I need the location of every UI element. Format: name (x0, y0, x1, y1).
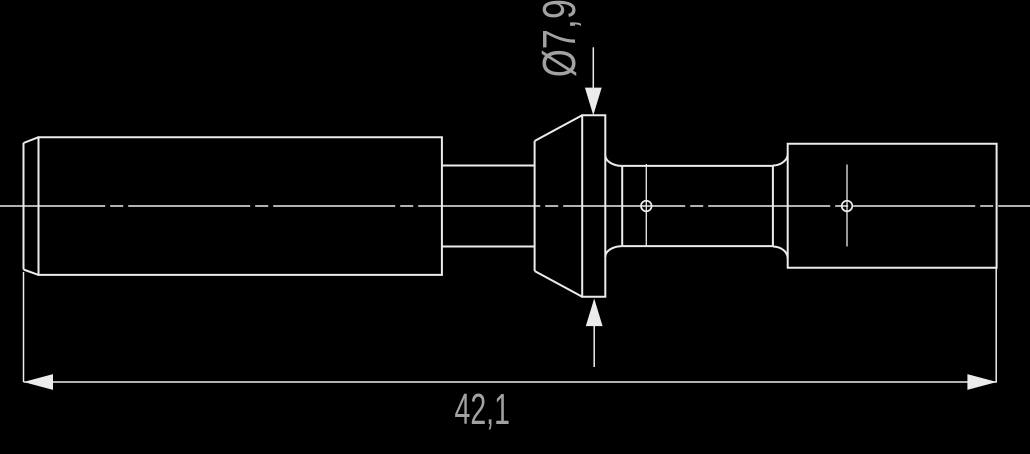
cone slant top (535, 115, 583, 141)
center mark 1 circle (641, 201, 652, 212)
neck top line (442, 165, 535, 167)
bottom leader shaft (593, 324, 595, 367)
svg-text:42,1: 42,1 (455, 384, 510, 434)
chamfer top (24, 137, 39, 143)
center mark 2 vertical (846, 165, 848, 247)
svg-text:Ø7,9: Ø7,9 (534, 0, 585, 77)
center mark 2 circle (842, 201, 853, 212)
right arrowhead (967, 374, 997, 390)
neck bottom line (442, 246, 535, 248)
top dimension leader shaft (592, 47, 594, 90)
fillet top right of flange (605, 155, 622, 166)
centerline (0, 205, 1030, 207)
big cylinder body (39, 137, 442, 275)
flange (582, 115, 605, 297)
fillet bottom right of flange (605, 246, 622, 257)
dimension line 42,1 (24, 381, 997, 383)
mid cylinder bottom line (622, 245, 773, 247)
cone left face (534, 141, 536, 271)
step fillet bottom to block (773, 247, 788, 259)
left extension line (23, 272, 25, 382)
center mark 1 vertical (645, 164, 647, 247)
mid cylinder top line (622, 165, 773, 167)
face line after fillet (621, 166, 623, 246)
left end face (23, 143, 25, 270)
left arrowhead (24, 374, 54, 390)
bottom arrowhead (586, 299, 603, 327)
right block (788, 144, 997, 268)
step fillet top to block (773, 154, 788, 166)
top arrowhead (585, 88, 602, 116)
right extension line (995, 268, 997, 382)
cone slant bottom (535, 271, 583, 297)
face line before step (772, 166, 774, 247)
chamfer bottom (24, 270, 39, 275)
